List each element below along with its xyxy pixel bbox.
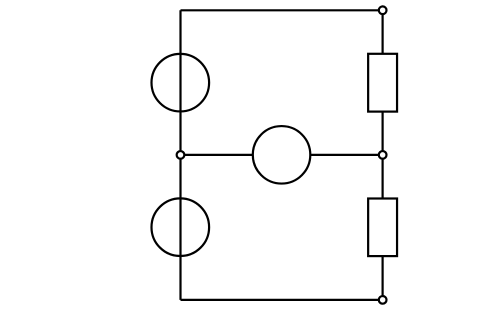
- resistor R2 (bottom-right box): [368, 199, 397, 257]
- source U3 (middle circle): [253, 126, 311, 184]
- node terminal middle-right: [379, 151, 387, 159]
- node terminal bottom-right: [379, 296, 387, 304]
- wire right vertical: [382, 10, 384, 300]
- source V1 (top-left circle with wire through): [152, 54, 210, 112]
- wire middle left segment: [181, 154, 254, 156]
- wire top horizontal: [181, 9, 383, 11]
- wire bottom horizontal: [181, 299, 383, 301]
- node terminal middle-left: [177, 151, 185, 159]
- node terminal top-right: [379, 6, 387, 14]
- source V2 (bottom-left circle with wire through): [152, 198, 210, 256]
- wire left vertical (through sources): [179, 10, 181, 300]
- resistor R1 (top-right box): [368, 54, 397, 112]
- wire middle right segment: [310, 154, 383, 156]
